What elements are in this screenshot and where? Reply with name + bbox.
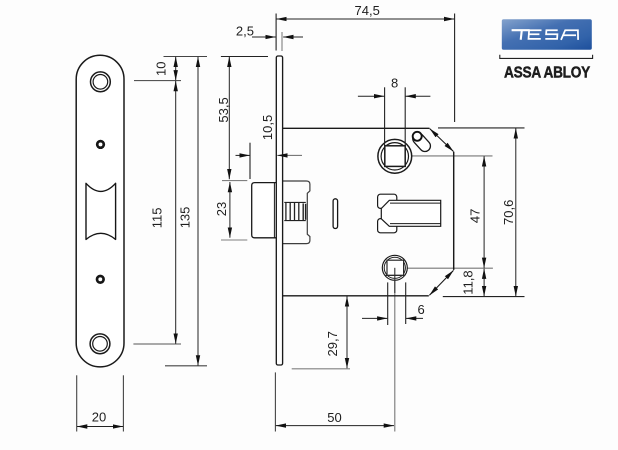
dimension 11,8 — [483, 269, 485, 297]
TESA letters — [512, 30, 578, 40]
cylinder centerline stub — [394, 268, 396, 293]
screw hole top — [91, 72, 111, 92]
dimension 8 left arrow — [358, 95, 384, 97]
lock case bottom edge — [283, 295, 429, 297]
dimension 2,5 left arrow — [252, 36, 276, 38]
cylinder center extension line (right) — [404, 267, 493, 269]
svg-text:70,6: 70,6 — [501, 200, 516, 225]
lever mechanism bar — [381, 200, 440, 226]
latch cutout — [86, 183, 116, 239]
dimension 10,5 right arrow — [277, 154, 302, 156]
faceplate side view — [276, 56, 282, 365]
dimension 115 — [175, 81, 177, 344]
dimension 47 — [483, 156, 485, 268]
spring seat — [302, 203, 304, 220]
dimension 135 — [197, 57, 199, 366]
dimension 10,5 left arrow — [236, 154, 250, 156]
extension line bottom hole center — [133, 343, 181, 345]
cylinder square — [387, 260, 404, 275]
cylinder vertical centerline down — [394, 262, 396, 432]
svg-text:10,5: 10,5 — [260, 115, 275, 140]
dimension 20 extension lines — [76, 375, 78, 431]
follower rings — [378, 139, 412, 173]
ext line 50 left — [274, 372, 276, 431]
small hole lower — [97, 276, 104, 283]
svg-text:29,7: 29,7 — [325, 331, 340, 356]
ext lines 6 — [387, 282, 389, 325]
TESA blue box — [502, 19, 592, 50]
guide slot — [333, 199, 338, 229]
svg-text:74,5: 74,5 — [355, 3, 380, 18]
logo bracket — [500, 55, 593, 59]
ext line latch bottom gray — [221, 239, 247, 241]
lever mechanism bottom tab — [378, 219, 397, 233]
lock case top edge — [283, 127, 430, 129]
ext line 2,5 right gray tick — [281, 32, 283, 51]
bottom-right chamfer with arrows — [429, 270, 453, 295]
ext line 74,5 right (case right) — [454, 14, 456, 123]
dimension 6 right arrow — [406, 317, 423, 319]
svg-text:6: 6 — [418, 302, 425, 317]
small hole upper — [97, 141, 104, 148]
svg-text:8: 8 — [391, 76, 398, 91]
ext line 29,7 bottom gray — [292, 368, 350, 370]
top-right chamfer with arrows — [430, 129, 454, 152]
ext line faceplate top (53,5) — [221, 56, 268, 58]
svg-text:50: 50 — [327, 410, 341, 425]
dimension 20 — [77, 426, 123, 428]
dimension 70,6 — [515, 128, 517, 296]
lock case right edge — [453, 152, 455, 270]
dimension 74,5 — [276, 18, 454, 20]
dimension 8 right arrow — [406, 95, 431, 97]
ext line case bottom right (70,6) — [443, 296, 525, 298]
dimension 6 left arrow — [362, 317, 387, 319]
ext lines 8 — [384, 87, 386, 145]
svg-text:ASSA ABLOY: ASSA ABLOY — [504, 64, 591, 81]
dimension 23 — [229, 182, 231, 238]
dimension 29,7 — [346, 296, 348, 368]
svg-text:115: 115 — [149, 208, 164, 229]
svg-text:2,5: 2,5 — [236, 24, 254, 39]
lever bar inner lines — [390, 202, 441, 204]
latch bolt inner edge — [273, 183, 275, 238]
locking pin circle — [413, 132, 422, 141]
lever mechanism top tab — [378, 194, 397, 208]
svg-text:20: 20 — [92, 409, 106, 424]
latch spring — [286, 202, 299, 220]
latch spring housing — [283, 181, 310, 244]
extension line plate top — [164, 56, 208, 58]
latch bolt head — [252, 183, 277, 238]
ext line case top right (70,6) — [438, 127, 525, 129]
svg-text:11,8: 11,8 — [460, 270, 475, 294]
follower square — [385, 146, 405, 167]
screw hole bottom — [90, 334, 110, 354]
dimension 53,5 — [228, 57, 230, 179]
follower center extension line (right) — [403, 155, 493, 157]
svg-text:47: 47 — [468, 209, 483, 223]
locking pin stadium — [410, 131, 432, 154]
ext line latch front (10,5) — [249, 143, 251, 179]
dimension 50 — [276, 425, 394, 427]
ext line latch top gray — [222, 180, 247, 182]
dimension 2,5 right arrow — [283, 36, 303, 38]
svg-text:23: 23 — [214, 202, 229, 216]
extension line plate bottom — [165, 365, 207, 367]
cylinder rings — [382, 255, 407, 280]
ext line 74,5 left (faceplate left) — [275, 14, 277, 51]
extension line top hole center — [134, 80, 181, 82]
svg-text:53,5: 53,5 — [216, 97, 231, 122]
svg-text:10: 10 — [153, 62, 168, 76]
svg-text:135: 135 — [177, 207, 192, 229]
faceplate front plate — [76, 55, 124, 367]
dimension 10 — [175, 57, 177, 81]
